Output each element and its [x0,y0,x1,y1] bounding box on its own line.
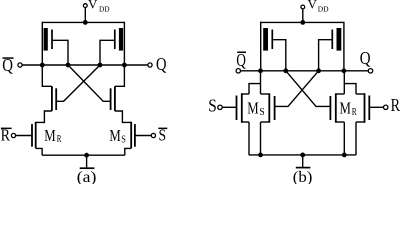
transistor left feedback NMOS (a) gate bar [55,88,57,110]
wire right FB gate lead + diagonal to Qbar node (a) [68,65,111,101]
node MS source junction (b) [258,153,263,158]
transistor MS input NMOS (b) gate bar [236,96,238,121]
node Qbar junction (a) [40,63,45,68]
wire MR box bottom stems (b) [343,122,345,155]
wire left load gate lead (a) [53,40,68,65]
wire MR box bottom spreads (b) [336,121,345,123]
svg-text:S: S [121,134,126,145]
wire right branch drain (a) [123,22,125,65]
node left gate junction (a) [66,63,71,68]
wire right FB drain lead (a) [115,65,125,86]
transistor right feedback NMOS (a) channel [114,86,116,111]
wire MR box top stem (b) [343,71,345,94]
transistor right depletion load (a) gate line [114,30,116,50]
wire MS box bottom spreads (b) [242,121,249,123]
wire MS feedback gate lead + diagonal to Q node (b) [275,71,319,107]
svg-text:DD: DD [318,5,329,14]
terminal Qbar (b) [236,69,240,73]
transistor MR (a) gate bar [31,124,33,147]
wire top rail (a) [42,21,124,23]
svg-text:Q: Q [156,54,167,74]
wire VDD stem (a) [84,8,86,23]
wire top rail (b) [261,21,344,23]
node VDD junction (b) [300,20,305,25]
transistor right depletion load (b) gate line [331,30,333,50]
node ground junction (b) [300,153,305,158]
transistor MR input NMOS (b) gate bar [368,96,370,121]
wire MR box top tee (b) [344,84,356,94]
wire R input lead (b) [369,106,383,108]
wire MS box bottom stems (b) [248,122,250,155]
svg-text:M: M [247,98,258,117]
svg-text:M: M [44,126,55,145]
transistor left depletion load (b) gate line [271,30,273,50]
wire MS box top stem (b) [260,71,262,94]
transistor right feedback NMOS (a) gate bar [110,88,112,110]
terminal VDD (a) [83,4,87,8]
label Sbar overbar (a) [158,128,167,130]
svg-text:M: M [109,126,120,145]
transistor right depletion load (a) channel bar [119,28,123,51]
label Qbar overbar (a) [3,57,14,59]
transistor MS input NMOS (b) channel [241,93,243,122]
wire MR source to ground rail (a) [36,148,42,155]
wire output rail (b) [241,70,369,72]
wire Rbar input lead (a) [16,135,32,137]
wire left load gate lead (b) [273,40,286,71]
transistor left depletion load (a) gate line [51,30,53,50]
node Q junction (a) [122,63,127,68]
wire MS box top tee (b) [249,84,261,94]
transistor MR feedback NMOS (b) channel [335,93,337,122]
node ground junction (a) [84,153,89,158]
svg-text:(a): (a) [77,169,97,184]
ground symbol (a) [86,155,88,167]
svg-text:S: S [208,96,217,116]
terminal Rbar (a) [11,133,15,137]
transistor left depletion load (a) channel bar [44,28,48,51]
transistor MR feedback NMOS (b) gate bar [329,96,331,120]
wire MS source to ground rail (a) [125,148,131,155]
svg-text:(b): (b) [293,169,313,184]
transistor MR (a) channel [35,122,37,149]
terminal Q (b) [368,69,372,73]
wire right branch drain (b) [343,22,345,71]
svg-text:R: R [352,107,357,118]
node left gate junction (b) [283,68,288,73]
wire left FB gate lead + diagonal to Q node (a) [56,65,100,101]
node MR drain junction (b) [342,153,347,158]
wire right FB source to MS drain (a) [115,111,131,122]
transistor left feedback NMOS (a) channel [51,86,53,111]
wire left FB source to MR drain (a) [36,111,52,122]
wire left FB drain lead (a) [42,65,52,86]
wire MR feedback gate lead + diagonal to Qbar node (b) [286,71,331,107]
transistor MS (a) channel [130,122,132,149]
wire right load gate lead (b) [319,40,332,71]
wire left branch drain (a) [41,22,43,65]
svg-text:DD: DD [99,5,110,14]
svg-text:V: V [308,0,318,12]
wire ground rail (a) [42,154,125,156]
terminal Qbar (a) [18,63,22,67]
terminal Sbar (a) [151,133,155,137]
wire MR box top spreads (b) [336,93,345,95]
svg-text:M: M [340,98,351,117]
node right gate junction (b) [316,68,321,73]
wire S input lead (b) [222,106,236,108]
transistor MR input NMOS (b) channel [364,93,366,122]
node Q junction (b) [342,68,347,73]
node right gate junction (a) [98,63,103,68]
node Qbar junction (b) [258,68,263,73]
node VDD junction (a) [83,20,88,25]
transistor right depletion load (b) channel bar [337,28,342,51]
wire MS box top spreads (b) [242,93,249,95]
transistor left depletion load (b) channel bar [263,28,268,51]
wire output rail (a) [22,64,148,66]
label Qbar overbar (b) [237,52,246,54]
svg-text:R: R [391,95,400,115]
terminal S (b) [218,105,222,109]
svg-text:S: S [259,107,264,118]
svg-text:R: R [57,134,62,145]
transistor MS feedback NMOS (b) gate bar [274,96,276,120]
wire VDD stem (b) [302,9,304,23]
transistor MS feedback NMOS (b) channel [268,93,270,122]
transistor MS (a) gate bar [134,124,136,147]
terminal VDD (b) [301,5,305,9]
label Rbar overbar (a) [1,128,12,130]
wire left branch drain (b) [260,22,262,71]
wire ground rail (b) [249,154,356,156]
wire Sbar input lead (a) [135,135,151,137]
terminal Q (a) [148,63,152,67]
svg-text:V: V [88,0,98,12]
wire right load gate lead (a) [100,40,114,65]
svg-text:Q: Q [360,48,371,68]
ground symbol (b) [302,155,304,167]
terminal R (b) [384,105,388,109]
